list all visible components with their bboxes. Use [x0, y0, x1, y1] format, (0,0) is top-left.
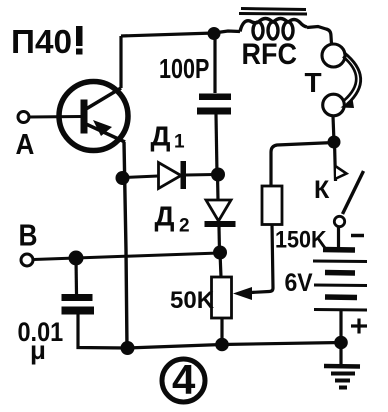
svg-text:Д: Д [151, 121, 171, 152]
label minus [351, 234, 364, 238]
svg-text:100P: 100P [159, 53, 209, 84]
svg-text:RFC: RFC [242, 38, 297, 72]
wire collector to top-left corner [119, 36, 122, 88]
label 0.01 mu [18, 318, 64, 365]
wiper arrowhead [233, 287, 252, 300]
inductor RFC core lines [239, 9, 307, 15]
label Д1 [151, 121, 186, 153]
diode Д2 [205, 200, 236, 227]
svg-text:T: T [305, 67, 322, 98]
wire top junction to C 100P [213, 33, 216, 93]
label П401 [11, 23, 83, 60]
wire junction to RFC [214, 31, 240, 33]
transistor VT1 (П401) [59, 82, 128, 151]
node switch junction [328, 136, 341, 149]
capacitor C1 100P [197, 94, 231, 115]
capacitor C2 0.01u [62, 294, 95, 315]
svg-text:50K: 50K [170, 287, 215, 314]
node B junction [69, 251, 84, 266]
wire 150K from junction [271, 143, 334, 186]
wire pot to bottom rail [220, 317, 223, 345]
wire B junction to D2 node [76, 253, 219, 258]
wire terminal B to junction [34, 258, 77, 260]
svg-text:Д: Д [155, 201, 175, 232]
switch K arm [343, 171, 364, 214]
switch K pivot circle [334, 216, 344, 226]
svg-text:4: 4 [172, 356, 196, 403]
node emitter junction [116, 171, 130, 185]
resistor 150K [262, 186, 282, 225]
headphone T top earpiece [322, 44, 345, 67]
svg-text:К: К [314, 176, 330, 204]
wire node to D2 [216, 175, 220, 201]
battery GB1 6V [313, 250, 367, 311]
headphone T band arcs [341, 53, 361, 109]
terminal B [19, 219, 38, 266]
label Д2 [155, 201, 190, 237]
switch K fixed contact triangle [336, 167, 347, 179]
wire battery to bottom junction [339, 310, 342, 342]
potentiometer 50K [212, 277, 232, 318]
label plus [351, 319, 367, 334]
svg-text:150K: 150K [275, 225, 327, 252]
wire emitter junction to D1 [125, 176, 158, 178]
svg-text:1: 1 [174, 132, 185, 153]
wire bottom rail [127, 343, 341, 349]
svg-text:В: В [19, 219, 38, 253]
wire switch pivot to battery [337, 227, 340, 249]
figure number 4 badge [162, 356, 205, 403]
wire terminal A to base [30, 115, 82, 119]
wire C 0.01 to bottom rail [78, 315, 127, 349]
node D1/D2 junction [211, 168, 225, 182]
svg-text:A: A [16, 128, 35, 161]
node bottom-left junction [121, 341, 135, 355]
wire emitter down to bottom rail [124, 142, 127, 348]
wire RFC to phone T [307, 27, 332, 45]
wire C 100P to D1 node [216, 115, 217, 175]
node battery bottom junction [334, 336, 348, 350]
node pot bottom junction [215, 338, 229, 352]
wire junction down to switch contact [335, 142, 336, 181]
ground symbol [324, 366, 360, 388]
wire top rail [121, 33, 214, 36]
wire 150K to wiper arrow [251, 224, 273, 293]
svg-text:П40: П40 [11, 23, 72, 60]
svg-text:2: 2 [179, 216, 190, 237]
node top junction [208, 27, 221, 40]
node D2 / B-line / pot junction [213, 246, 227, 260]
svg-text:6V: 6V [285, 269, 313, 297]
wire B junction to C 0.01 [74, 258, 78, 294]
diode Д1 [159, 161, 187, 189]
terminal A [16, 112, 35, 161]
svg-text:μ: μ [30, 335, 46, 365]
wire D2 node to pot 50K [220, 253, 221, 278]
wire phone to switch junction [333, 116, 334, 142]
wire D1 to node [186, 173, 214, 177]
headphone T bottom earpiece [323, 94, 345, 116]
wire D2 to lower node [217, 227, 221, 252]
wire junction to ground [339, 342, 342, 364]
inductor RFC coil [240, 19, 307, 40]
